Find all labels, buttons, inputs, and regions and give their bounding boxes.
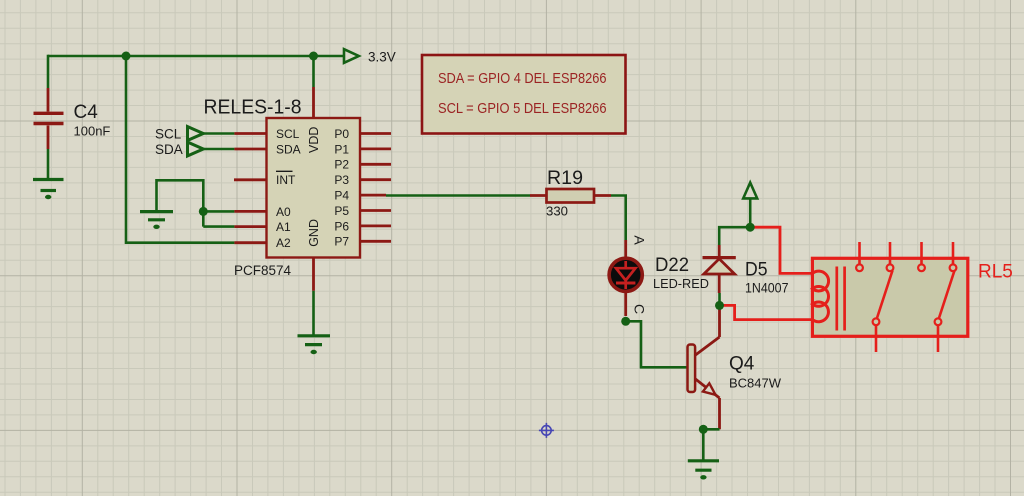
wire Q4 collector up bbox=[718, 305, 721, 337]
relay top contact x=859.5 bbox=[856, 264, 863, 271]
IC U1 PCF8574 body RELES-1-8 bbox=[267, 118, 361, 258]
relay top pin x=890 bbox=[889, 242, 892, 264]
wire R19 to LED bbox=[611, 196, 626, 241]
svg-text:A0: A0 bbox=[276, 205, 291, 219]
wire D5 bottom bbox=[718, 293, 721, 305]
ground left of A0 bbox=[140, 212, 173, 229]
relay switch blade 1 bbox=[877, 271, 893, 319]
node junction A0 bbox=[199, 207, 208, 216]
wire P4 to R19 bbox=[386, 194, 530, 197]
pin A2 of U1 bbox=[234, 241, 266, 244]
capacitor C4 bbox=[34, 88, 64, 149]
svg-text:D22: D22 bbox=[655, 255, 689, 276]
relay top pin x=953 bbox=[952, 242, 955, 264]
svg-text:SCL = GPIO 5 DEL ESP8266: SCL = GPIO 5 DEL ESP8266 bbox=[438, 100, 607, 117]
wire to power arrow bbox=[749, 198, 752, 227]
origin marker bbox=[539, 423, 554, 438]
wire top power rail bbox=[48, 55, 344, 58]
svg-text:C: C bbox=[632, 304, 648, 314]
node junction top rail / VDD branch bbox=[309, 52, 318, 61]
node junction LED cathode bbox=[621, 317, 630, 326]
relay RL5 body bbox=[812, 258, 967, 336]
pin P6 of U1 bbox=[360, 224, 391, 227]
wire A1 bbox=[203, 225, 234, 228]
svg-text:P3: P3 bbox=[334, 173, 349, 187]
wire relay coil top (red) bbox=[750, 227, 812, 273]
svg-text:SCL: SCL bbox=[155, 127, 182, 142]
svg-text:GND: GND bbox=[307, 219, 321, 247]
svg-text:R19: R19 bbox=[547, 168, 583, 189]
pin P7 of U1 bbox=[360, 240, 391, 243]
relay bottom contact x=876 bbox=[873, 318, 880, 325]
svg-text:RL5: RL5 bbox=[978, 262, 1013, 283]
svg-text:SDA: SDA bbox=[276, 142, 301, 156]
svg-text:P1: P1 bbox=[334, 142, 349, 156]
node junction emitter corner bbox=[699, 425, 708, 434]
svg-text:SCL: SCL bbox=[276, 127, 300, 141]
wire ground / A0 / A1 loop bbox=[157, 180, 204, 226]
pin P4 of U1 bbox=[360, 194, 386, 197]
relay bottom pin x=876 bbox=[875, 325, 878, 352]
svg-text:330: 330 bbox=[546, 204, 568, 219]
svg-text:A: A bbox=[632, 235, 648, 245]
svg-text:3.3V: 3.3V bbox=[368, 50, 396, 65]
ground below C4 bbox=[33, 180, 64, 200]
svg-text:100nF: 100nF bbox=[74, 124, 111, 139]
svg-text:VDD: VDD bbox=[307, 127, 321, 153]
terminal buffer SDA bbox=[188, 142, 204, 156]
pin SCL of U1 bbox=[234, 132, 266, 135]
svg-text:LED-RED: LED-RED bbox=[653, 276, 709, 291]
transistor Q4 BC847W bbox=[688, 337, 720, 398]
wire Q4 emitter down bbox=[718, 398, 721, 429]
wire VDD from rail bbox=[312, 56, 315, 87]
pin label INT with overline bbox=[276, 171, 296, 187]
pin GND of U1 bbox=[312, 258, 315, 291]
annotation note box bbox=[422, 55, 626, 134]
pin P2 of U1 bbox=[360, 163, 391, 166]
svg-text:A1: A1 bbox=[276, 220, 291, 234]
wire C4 bottom bbox=[47, 149, 50, 179]
node junction top rail / C4 branch bbox=[122, 52, 131, 61]
svg-text:P4: P4 bbox=[334, 189, 349, 203]
power terminal up arrow bbox=[743, 183, 757, 199]
wire A0 bbox=[203, 210, 234, 213]
svg-text:Q4: Q4 bbox=[729, 354, 755, 375]
ground below U1 bbox=[298, 336, 331, 354]
pin P5 of U1 bbox=[360, 209, 391, 212]
svg-text:P0: P0 bbox=[334, 127, 349, 141]
svg-text:INT: INT bbox=[276, 173, 296, 187]
pin cathode of D22 bbox=[624, 292, 627, 316]
svg-text:SDA: SDA bbox=[155, 142, 183, 157]
diode D5 1N4007 bbox=[703, 245, 736, 293]
pin anode of D22 bbox=[624, 240, 627, 258]
resistor R19 bbox=[530, 189, 611, 203]
svg-text:PCF8574: PCF8574 bbox=[234, 263, 292, 278]
svg-text:A2: A2 bbox=[276, 236, 291, 250]
terminal buffer SCL bbox=[188, 127, 204, 141]
wire LED cathode to Q4 base bbox=[626, 321, 688, 367]
svg-text:P7: P7 bbox=[334, 235, 349, 249]
relay top contact x=890 bbox=[887, 264, 894, 271]
svg-text:BC847W: BC847W bbox=[729, 376, 782, 391]
pin INT of U1 bbox=[234, 178, 267, 181]
wire C4 top bbox=[47, 55, 50, 88]
pin VDD of U1 bbox=[312, 87, 315, 118]
relay coil bbox=[812, 271, 828, 322]
wire SDA bbox=[203, 148, 234, 151]
relay switch blade 2 bbox=[939, 271, 955, 319]
pin A1 of U1 bbox=[234, 225, 266, 228]
wire SCL bbox=[203, 132, 234, 135]
svg-text:P2: P2 bbox=[334, 158, 349, 172]
LED D22 body bbox=[609, 258, 642, 291]
ground below Q4 bbox=[688, 461, 719, 480]
relay top pin x=859.5 bbox=[858, 242, 861, 264]
svg-text:RELES-1-8: RELES-1-8 bbox=[204, 97, 302, 119]
wire relay coil bottom (red) bbox=[720, 305, 813, 319]
svg-text:P5: P5 bbox=[334, 204, 349, 218]
node junction power arrow bbox=[746, 223, 755, 232]
svg-text:SDA = GPIO 4 DEL ESP8266: SDA = GPIO 4 DEL ESP8266 bbox=[438, 70, 607, 87]
pin P0 of U1 bbox=[360, 132, 391, 135]
pin SDA of U1 bbox=[234, 148, 266, 151]
svg-text:1N4007: 1N4007 bbox=[745, 281, 789, 296]
wire GND to ground bbox=[312, 291, 315, 336]
relay core bbox=[837, 267, 845, 331]
svg-text:C4: C4 bbox=[74, 102, 99, 123]
relay top contact x=921.5 bbox=[918, 264, 925, 271]
relay top pin x=921.5 bbox=[920, 242, 923, 264]
svg-text:D5: D5 bbox=[745, 260, 768, 281]
pin A0 of U1 bbox=[234, 210, 266, 213]
wire left branch down to A2 bbox=[126, 56, 234, 243]
node junction collector / D5 / relay bbox=[715, 301, 724, 310]
wire emitter to ground bbox=[703, 429, 719, 460]
relay bottom pin x=938 bbox=[937, 325, 940, 352]
wire D5 top to power bbox=[719, 227, 750, 245]
relay bottom contact x=938 bbox=[935, 318, 942, 325]
svg-text:P6: P6 bbox=[334, 219, 349, 233]
pin P1 of U1 bbox=[360, 147, 391, 150]
power terminal 3.3V arrow bbox=[344, 49, 359, 63]
pin P3 of U1 bbox=[360, 178, 391, 181]
relay top contact x=953 bbox=[950, 264, 957, 271]
